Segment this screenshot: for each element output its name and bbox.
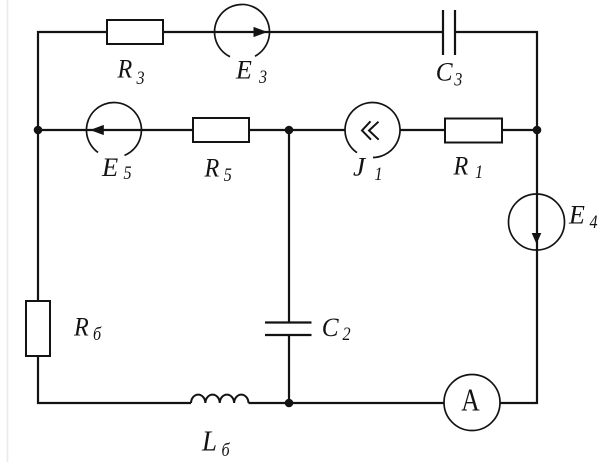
source E5 arrow <box>90 125 104 135</box>
svg-text:E: E <box>235 56 252 85</box>
svg-text:3: 3 <box>136 67 145 89</box>
svg-text:E: E <box>101 153 118 182</box>
svg-text:E: E <box>568 201 585 230</box>
resistor R6 <box>26 301 50 356</box>
page edge faint line <box>7 0 9 462</box>
resistor R3 <box>107 20 163 44</box>
source E4 arrow <box>532 233 542 244</box>
capacitor C2 plates <box>265 323 312 336</box>
resistor R1 <box>445 119 502 143</box>
wire: middle row left part (to J1 left edge) <box>38 129 345 131</box>
resistor R5 <box>193 118 249 142</box>
source E4 circle <box>509 194 565 250</box>
ammeter A <box>444 375 500 431</box>
svg-text:R: R <box>204 155 220 183</box>
svg-text:5: 5 <box>124 162 132 184</box>
node dot left-middle <box>34 126 43 135</box>
svg-text:R: R <box>73 314 89 342</box>
inductor L6 <box>191 395 249 403</box>
svg-text:1: 1 <box>475 161 483 183</box>
svg-text:R: R <box>453 153 469 181</box>
wire: middle row right part (J1 right edge to right node) <box>400 129 537 131</box>
source E3 circle <box>215 4 270 56</box>
svg-text:4: 4 <box>590 211 598 233</box>
source E3 arrow <box>254 27 268 37</box>
wire: middle vertical lower (C2 bottom plate to bottom wire) <box>288 335 290 403</box>
svg-text:J: J <box>353 152 366 181</box>
node dot right-middle <box>533 126 542 135</box>
wire: middle vertical upper (node to C2 top plate) <box>288 130 290 323</box>
svg-text:C: C <box>436 57 454 86</box>
svg-text:1: 1 <box>375 163 383 185</box>
wire: left vertical + top run to C3 left plate <box>38 32 443 403</box>
svg-text:3: 3 <box>258 66 267 88</box>
svg-text:б: б <box>222 439 231 461</box>
current source J1 chevrons <box>362 121 379 139</box>
svg-text:3: 3 <box>453 68 462 90</box>
svg-text:5: 5 <box>224 164 232 186</box>
wire: bottom from inductor to ammeter left edge <box>249 402 445 404</box>
svg-text:R: R <box>117 56 133 84</box>
node dot bottom-center <box>285 399 294 408</box>
svg-text:C: C <box>322 313 340 342</box>
svg-text:б: б <box>93 323 102 345</box>
svg-text:2: 2 <box>343 323 351 345</box>
wire: C3 right plate to top-right corner, right vertical, bottom to ammeter <box>455 32 537 403</box>
current source J1 circle <box>345 103 400 158</box>
svg-text:A: A <box>461 383 480 418</box>
svg-text:L: L <box>201 426 217 458</box>
source E5 circle <box>86 103 141 156</box>
capacitor C3 plates <box>443 10 455 55</box>
node dot center-middle <box>285 126 294 135</box>
